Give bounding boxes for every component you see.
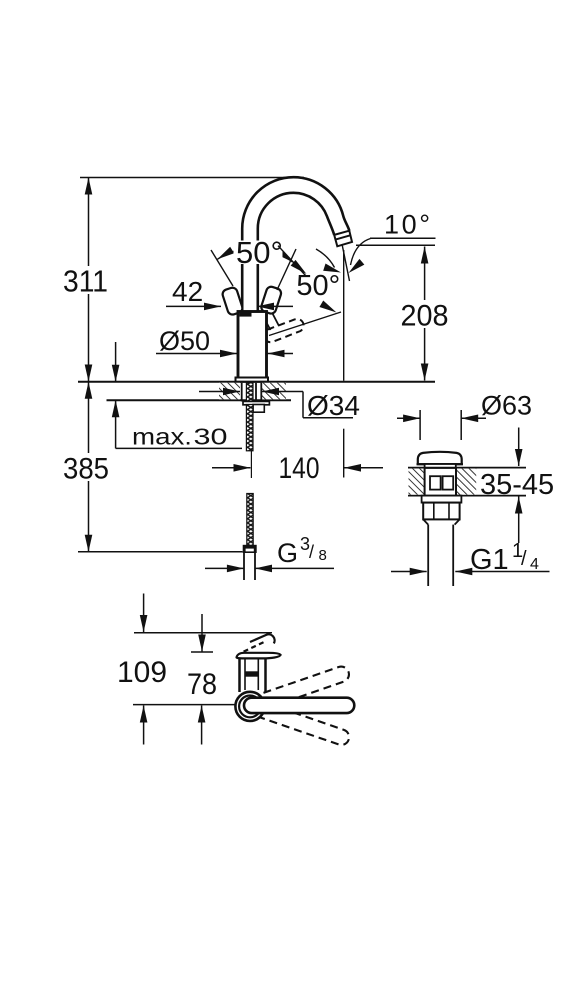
svg-text:50°: 50° (236, 235, 283, 270)
drain taper (423, 519, 459, 524)
angle 50 swivel: boundary line (278, 246, 306, 276)
drain neck (425, 464, 456, 468)
plan body black band (245, 671, 259, 676)
svg-text:/: / (521, 548, 527, 570)
dashed lever down (251, 700, 351, 747)
svg-text:30: 30 (194, 424, 228, 450)
spout outlet extension line (343, 250, 345, 381)
drain countertop lines (408, 467, 526, 469)
lever knob left (221, 286, 243, 315)
drain hatch right (456, 469, 476, 495)
threaded rod lower (247, 494, 253, 546)
plan lever tip (242, 634, 274, 652)
dimension 35-45 (480, 428, 554, 544)
drain nut (423, 503, 459, 520)
svg-text:140: 140 (279, 452, 320, 485)
svg-text:42: 42 (172, 276, 203, 307)
svg-text:G: G (277, 538, 298, 568)
svg-text:Ø34: Ø34 (307, 390, 360, 421)
dimension 109 (117, 594, 167, 745)
dimension max30 (112, 342, 242, 450)
angle 50 swivel: left arrowhead (291, 260, 309, 277)
faucet body (238, 312, 267, 379)
angle 10: arc and arrowhead (351, 239, 371, 266)
svg-text:385: 385 (63, 453, 109, 486)
svg-text:50°: 50° (296, 270, 340, 302)
swivel extension slanted line (269, 312, 341, 336)
plan body column (240, 658, 266, 692)
dimension 311 (63, 178, 110, 382)
svg-text:311: 311 (63, 264, 108, 299)
angle 50 lever: arc (217, 249, 292, 262)
svg-text:Ø50: Ø50 (159, 326, 210, 356)
angle 50 lever: arrowheads (215, 247, 234, 263)
dimension G 3/8 (205, 534, 334, 572)
dimension diameter 50 (156, 326, 293, 357)
threaded rod upper (246, 383, 253, 402)
threaded rod below washer (246, 405, 253, 451)
angle 50 swivel: arc (316, 249, 335, 268)
base plate (236, 378, 269, 382)
dimension 208 (399, 247, 450, 381)
svg-text:max.: max. (132, 424, 192, 450)
compression fitting (243, 545, 257, 553)
plan escutcheon plate (237, 653, 281, 659)
dimension G1 1/4 (391, 540, 550, 576)
angle 50 lever: label (234, 241, 283, 265)
svg-text:208: 208 (401, 300, 449, 333)
angle 50 swivel: right arrowhead (323, 263, 342, 276)
drain cap (418, 452, 462, 464)
svg-text:8: 8 (319, 547, 327, 564)
spout gooseneck (242, 177, 349, 311)
faucet centerline (250, 451, 252, 478)
angle 10: reference lines (370, 237, 436, 239)
lever shaft swiveled (264, 317, 271, 330)
washer (243, 401, 269, 404)
dashed lever up (251, 664, 351, 711)
svg-text:Ø63: Ø63 (481, 391, 532, 421)
solid lever (244, 698, 354, 713)
dimension 140 (212, 452, 383, 485)
pivot circles (235, 692, 264, 721)
countertop main view (78, 381, 435, 383)
countertop hatch left (219, 383, 240, 400)
reference line top (80, 177, 304, 179)
drain overflow windows (430, 476, 441, 489)
svg-text:/: / (309, 542, 314, 562)
dimension 385 (61, 382, 243, 552)
drain hatch left (409, 469, 425, 495)
drain flange (422, 496, 462, 503)
svg-text:35-45: 35-45 (480, 469, 554, 501)
dimension diameter 34 leader (199, 388, 360, 421)
angle 10: tilted spout axis line (342, 244, 350, 281)
drain body in hole (425, 468, 456, 496)
small view reference lines (134, 632, 272, 634)
spout aerator (334, 231, 352, 247)
countertop hatch right (262, 383, 286, 400)
svg-text:109: 109 (117, 656, 167, 689)
supply pipe G38 (244, 553, 255, 580)
hose nut (253, 405, 264, 413)
angle 50 lever: extension lines (211, 250, 233, 286)
dimension 42 (166, 276, 293, 310)
dimension 78 (187, 614, 217, 745)
swivel dashed lever (264, 319, 304, 342)
dimension diameter 63 (397, 391, 532, 441)
svg-text:10°: 10° (384, 210, 430, 240)
svg-text:78: 78 (187, 668, 217, 701)
drain pipe (428, 525, 453, 586)
mounting shank in hole (242, 383, 262, 402)
svg-text:G1: G1 (470, 544, 509, 576)
lever knob right (260, 285, 282, 314)
svg-text:4: 4 (530, 556, 539, 573)
